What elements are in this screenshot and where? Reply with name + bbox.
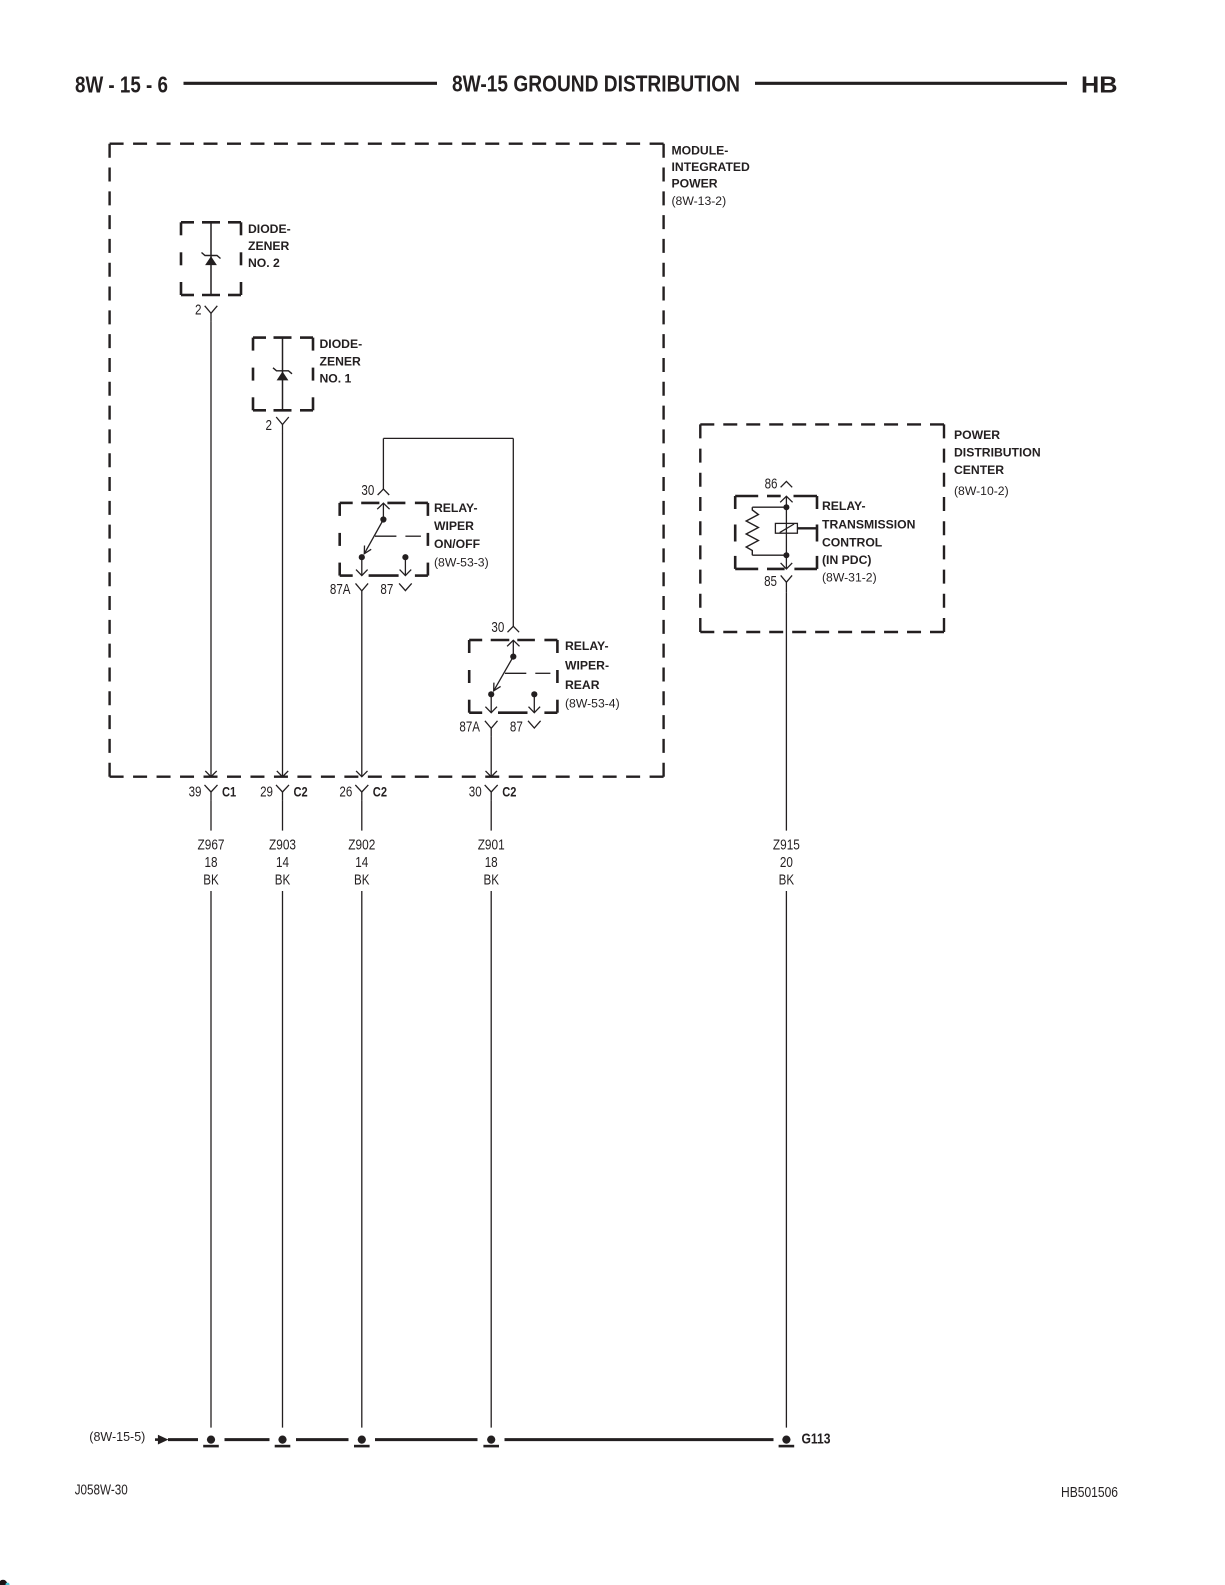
wire Z915 segment from relay 85 to label	[785, 593, 787, 831]
splice junction Z903 on ground bus	[275, 1436, 291, 1447]
wire Z902 upper segment from relay wiper on/off 87A	[361, 600, 363, 777]
relay transmission control pin 86 terminal arrow	[780, 496, 792, 510]
svg-text:Z915: Z915	[773, 837, 800, 853]
relay transmission control box left edge	[734, 496, 737, 569]
svg-text:Z903: Z903	[269, 837, 296, 853]
svg-text:87: 87	[510, 719, 523, 735]
svg-text:CONTROL: CONTROL	[822, 536, 883, 550]
wire Z967 lower segment to ground bus	[210, 891, 212, 1428]
relay transmission control resistor branch	[746, 507, 786, 555]
svg-text:G113: G113	[802, 1431, 831, 1448]
relay wiper on/off pin 87A terminal	[356, 554, 368, 575]
svg-text:(8W-53-4): (8W-53-4)	[565, 696, 620, 710]
svg-text:NO. 1: NO. 1	[320, 372, 352, 386]
diode-zener no.1 box bottom edge	[253, 409, 313, 412]
relay wiper rear pin 87A connector	[485, 721, 498, 737]
svg-text:30: 30	[469, 784, 482, 800]
svg-text:MODULE-: MODULE-	[672, 144, 729, 158]
connector C2 pin 29	[276, 785, 289, 801]
module-integrated power box	[110, 144, 664, 777]
diode-zener no.2 pin 2 connector	[205, 306, 218, 322]
svg-text:8W-15 GROUND DISTRIBUTION: 8W-15 GROUND DISTRIBUTION	[452, 71, 740, 97]
svg-text:30: 30	[361, 483, 374, 499]
relay wiper on/off pin 87 connector half	[399, 583, 412, 590]
svg-text:8W - 15 - 6: 8W - 15 - 6	[75, 72, 168, 98]
svg-text:ZENER: ZENER	[248, 239, 290, 253]
diode-zener no.1 box right edge	[312, 338, 315, 411]
relay transmission control coil lead	[785, 507, 787, 555]
wire Z901 segment below connector	[490, 801, 492, 831]
connector C1 pin 39	[205, 785, 218, 801]
svg-text:(8W-15-5): (8W-15-5)	[89, 1430, 145, 1444]
diode-zener no.2 symbol	[202, 253, 221, 266]
svg-text:ZENER: ZENER	[320, 355, 362, 369]
relay wiper rear pin 30 connector	[508, 626, 520, 632]
wire Z901 exit arrow at module box edge	[486, 771, 497, 777]
svg-text:Z901: Z901	[478, 837, 505, 853]
svg-text:J058W-30: J058W-30	[75, 1483, 128, 1499]
svg-text:(8W-13-2): (8W-13-2)	[672, 194, 727, 208]
svg-text:C1: C1	[222, 783, 236, 799]
svg-text:87A: 87A	[459, 719, 480, 735]
svg-text:HB501506: HB501506	[1061, 1485, 1118, 1501]
relay transmission control box bottom edge	[735, 568, 817, 571]
svg-text:(8W-31-2): (8W-31-2)	[822, 571, 877, 585]
svg-text:DIODE-: DIODE-	[320, 337, 363, 351]
relay transmission control pin 85 connector	[781, 575, 792, 592]
relay wiper on/off actuator dashed line	[375, 535, 421, 537]
svg-text:BK: BK	[354, 873, 370, 889]
power distribution center box	[700, 424, 944, 632]
wire Z902 lower segment to ground bus	[361, 891, 363, 1428]
wire Z967 upper segment from diode no.2	[210, 322, 212, 777]
svg-text:TRANSMISSION: TRANSMISSION	[822, 518, 915, 532]
relay wiper on/off box right edge	[427, 503, 430, 576]
svg-text:ON/OFF: ON/OFF	[434, 537, 480, 551]
svg-text:CENTER: CENTER	[954, 463, 1004, 477]
diode-zener no.1 symbol	[273, 368, 292, 381]
svg-text:87: 87	[380, 582, 393, 598]
wire Z903 upper segment from diode no.1	[282, 433, 284, 777]
ground bus wire to (8W-15-5)	[168, 1438, 774, 1441]
svg-text:(8W-53-3): (8W-53-3)	[434, 556, 489, 570]
svg-text:DISTRIBUTION: DISTRIBUTION	[954, 446, 1041, 460]
diode-zener no.1 pin 2 connector	[276, 417, 289, 433]
svg-text:29: 29	[260, 784, 273, 800]
relay wiper on/off box top edge	[340, 502, 428, 505]
relay wiper on/off pin 87A connector	[356, 583, 369, 599]
relay wiper rear box bottom edge	[469, 711, 557, 714]
svg-text:POWER: POWER	[672, 177, 718, 191]
relay wiper rear pin 87A terminal	[485, 691, 497, 713]
splice junction Z967 on ground bus	[203, 1436, 219, 1447]
wire Z902 segment below connector	[361, 801, 363, 831]
svg-text:85: 85	[764, 574, 777, 590]
relay wiper on/off box bottom edge	[340, 574, 428, 577]
relay wiper on/off pin 87 terminal	[400, 554, 412, 575]
svg-text:39: 39	[189, 784, 202, 800]
wire Z967 segment below connector	[210, 801, 212, 831]
svg-text:18: 18	[205, 855, 218, 871]
svg-text:26: 26	[339, 784, 352, 800]
svg-text:18: 18	[485, 855, 498, 871]
diode-zener no.1 box top edge	[253, 336, 313, 339]
svg-text:BK: BK	[275, 873, 291, 889]
header rule right	[755, 82, 1067, 85]
relay wiper rear pin 87 connector half	[528, 721, 541, 728]
wire Z901 upper segment from relay wiper rear 87A	[490, 737, 492, 777]
relay transmission control box top edge	[735, 495, 817, 498]
svg-text:INTEGRATED: INTEGRATED	[672, 160, 751, 174]
splice junction Z901 on ground bus	[483, 1436, 499, 1447]
svg-text:C2: C2	[294, 783, 308, 799]
relay wiper rear actuator dashed line	[505, 672, 551, 674]
relay wiper rear box right edge	[556, 640, 559, 713]
splice junction Z915 on ground bus	[779, 1436, 795, 1447]
svg-text:2: 2	[195, 303, 202, 319]
relay wiper rear switch blade	[494, 657, 514, 691]
svg-text:DIODE-: DIODE-	[248, 222, 291, 236]
ground bus arrow to 8W-15-5	[155, 1435, 168, 1445]
svg-text:Z902: Z902	[348, 837, 375, 853]
svg-text:Z967: Z967	[198, 837, 225, 853]
relay wiper on/off pin 30 connector	[378, 489, 390, 495]
wire Z903 exit arrow at module box edge	[277, 771, 288, 777]
svg-text:86: 86	[765, 476, 778, 492]
svg-text:RELAY-: RELAY-	[565, 639, 609, 653]
svg-text:REAR: REAR	[565, 678, 600, 692]
diode-zener no.2 box bottom edge	[181, 294, 241, 297]
svg-text:20: 20	[780, 855, 793, 871]
wire jumper relay wiper on/off pin30 to relay wiper rear pin30	[383, 438, 513, 626]
relay wiper rear pin 30 terminal arrow	[507, 640, 519, 659]
splice junction Z902 on ground bus	[354, 1436, 370, 1447]
wire Z902 exit arrow at module box edge	[356, 771, 367, 777]
relay wiper on/off pin 30 terminal arrow	[377, 503, 389, 522]
wire Z901 lower segment to ground bus	[490, 891, 492, 1428]
relay transmission control pin 86 connector	[781, 481, 793, 487]
diode-zener no.2 box top edge	[181, 221, 241, 224]
diode-zener no.2 box right edge	[240, 222, 243, 295]
diode-zener no.1 box left edge	[252, 338, 255, 411]
header rule left	[184, 82, 438, 85]
relay transmission control pin 85 terminal arrow	[781, 552, 793, 569]
svg-text:NO. 2: NO. 2	[248, 256, 280, 270]
relay wiper rear box top edge	[469, 639, 557, 642]
relay wiper rear pin 87 terminal	[529, 691, 541, 713]
relay wiper rear box left edge	[468, 640, 471, 713]
wire Z903 segment below connector	[282, 801, 284, 831]
diode-zener no.2 box left edge	[180, 222, 183, 295]
svg-text:14: 14	[276, 855, 289, 871]
svg-text:14: 14	[355, 855, 368, 871]
diode-zener no.1 lead wire	[282, 338, 284, 411]
relay transmission control coil symbol	[775, 523, 817, 533]
scan artifact dot bottom-left corner	[0, 1580, 10, 1585]
wire Z903 lower segment to ground bus	[282, 891, 284, 1428]
svg-text:RELAY-: RELAY-	[822, 499, 866, 513]
connector C2 pin 30	[485, 785, 498, 801]
svg-text:2: 2	[266, 418, 273, 434]
relay transmission control box right edge	[816, 496, 819, 569]
svg-text:C2: C2	[502, 783, 516, 799]
diode-zener no.2 lead wire	[210, 222, 212, 295]
svg-text:(IN PDC): (IN PDC)	[822, 553, 871, 567]
svg-text:87A: 87A	[330, 582, 351, 598]
svg-text:WIPER: WIPER	[434, 519, 474, 533]
svg-text:BK: BK	[483, 873, 499, 889]
svg-text:RELAY-: RELAY-	[434, 501, 478, 515]
svg-text:POWER: POWER	[954, 428, 1000, 442]
svg-text:HB: HB	[1081, 72, 1118, 98]
svg-text:BK: BK	[779, 873, 795, 889]
wire Z915 lower segment to ground bus	[785, 891, 787, 1428]
svg-text:C2: C2	[373, 783, 387, 799]
connector C2 pin 26	[355, 785, 368, 801]
relay wiper on/off switch blade	[364, 520, 383, 554]
relay wiper on/off box left edge	[338, 503, 341, 576]
svg-text:(8W-10-2): (8W-10-2)	[954, 484, 1009, 498]
svg-text:WIPER-: WIPER-	[565, 658, 609, 672]
svg-text:BK: BK	[203, 873, 219, 889]
wire Z967 exit arrow at module box edge	[205, 771, 216, 777]
svg-text:30: 30	[491, 620, 504, 636]
